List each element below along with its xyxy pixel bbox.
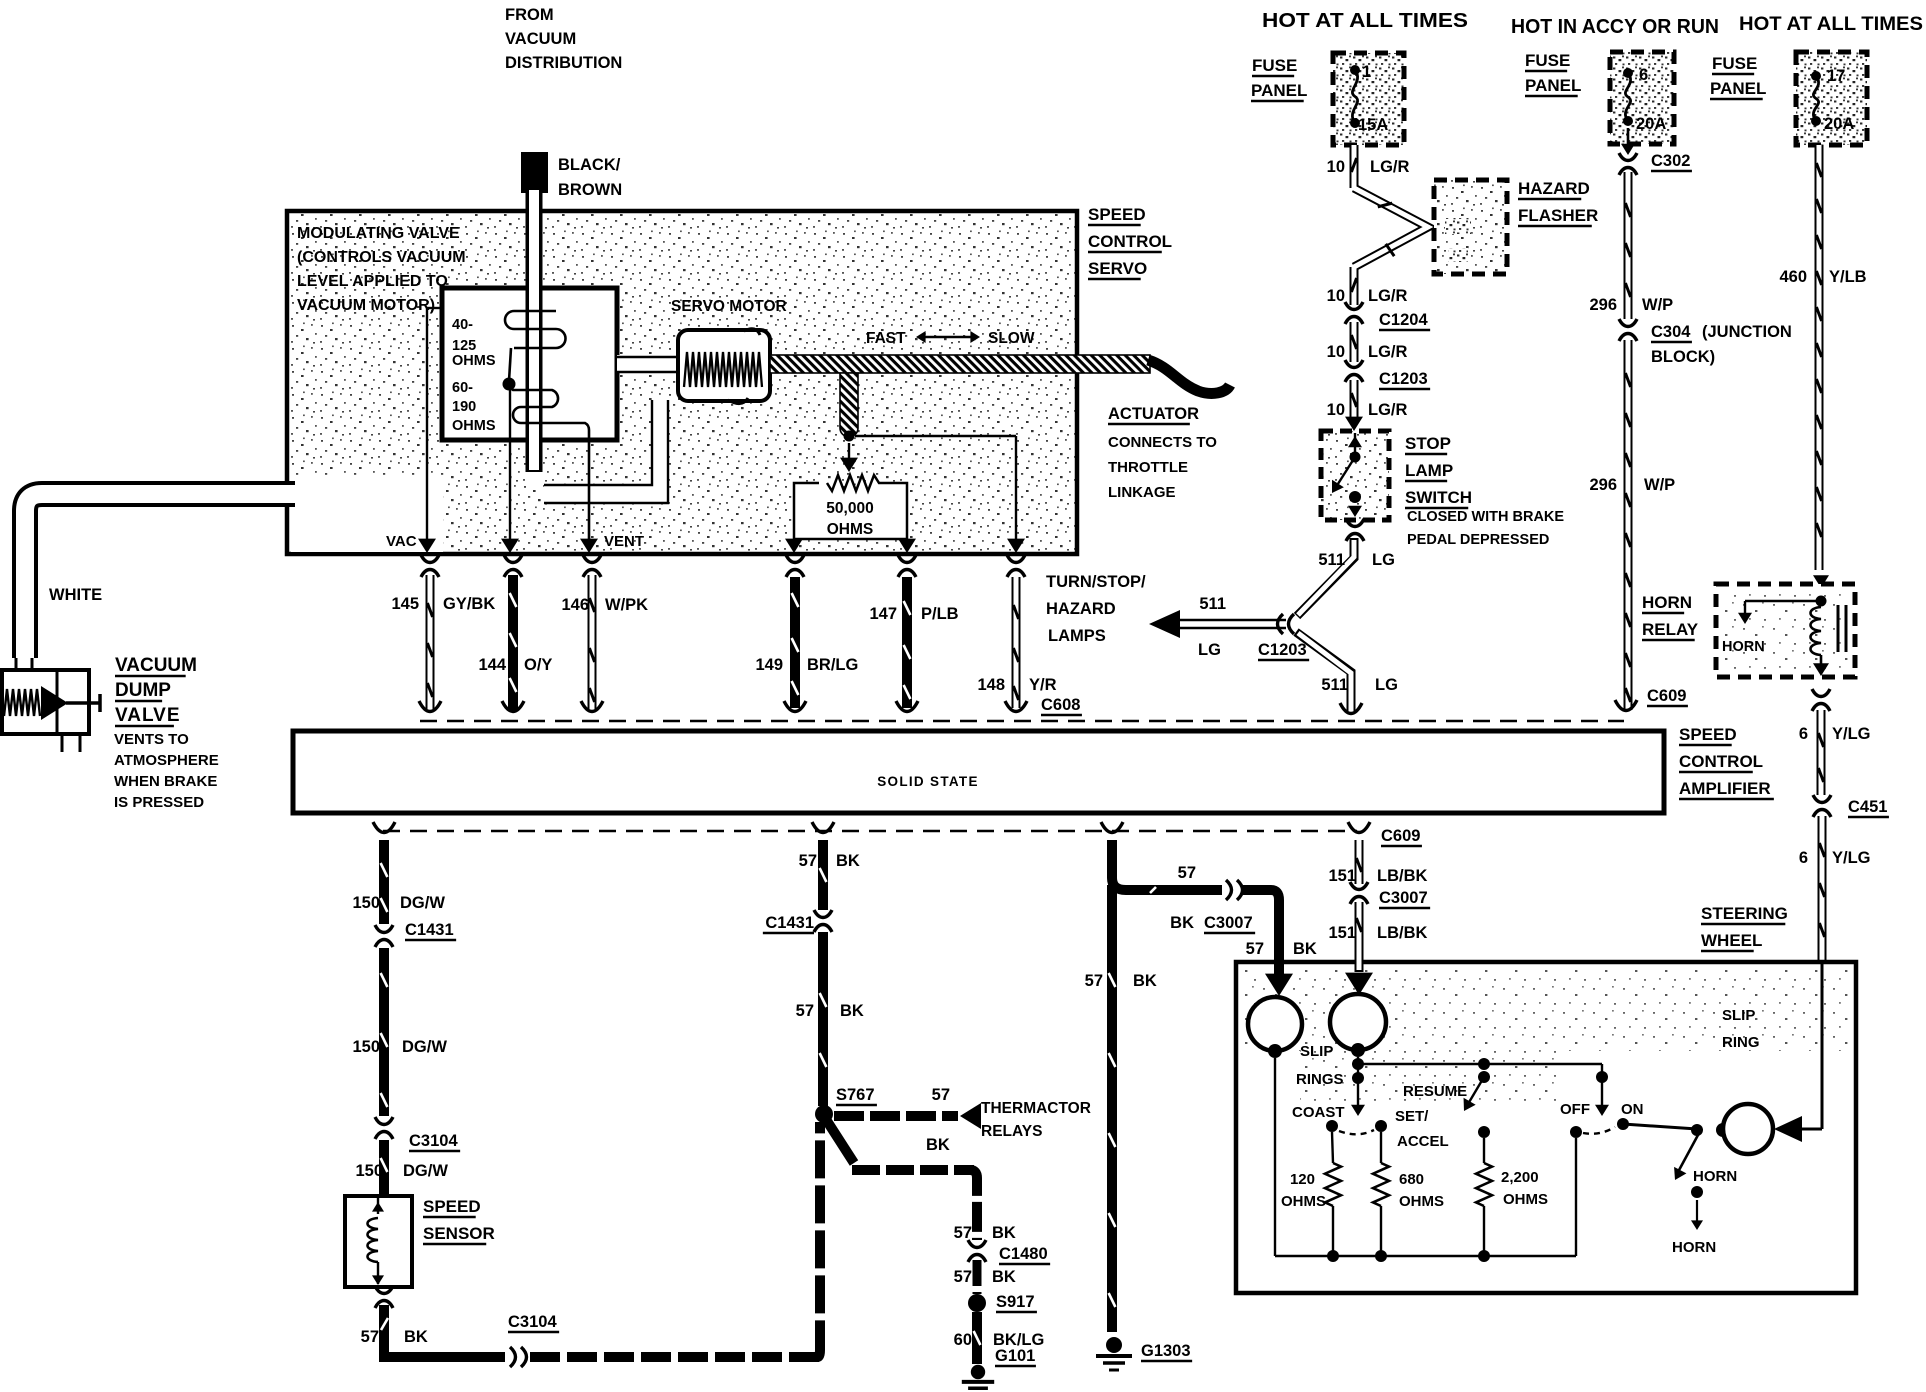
svg-text:Y/LG: Y/LG (1832, 849, 1871, 867)
svg-text:680: 680 (1399, 1171, 1424, 1188)
svg-text:511: 511 (1321, 676, 1348, 694)
svg-text:40-: 40- (452, 317, 473, 333)
svg-text:IS PRESSED: IS PRESSED (114, 794, 204, 811)
svg-text:57: 57 (799, 852, 817, 870)
svg-text:LG/R: LG/R (1368, 401, 1407, 419)
svg-text:57: 57 (954, 1224, 972, 1242)
svg-text:60: 60 (954, 1331, 972, 1349)
svg-text:LB/BK: LB/BK (1377, 867, 1427, 885)
svg-text:SPEED: SPEED (1679, 725, 1737, 744)
svg-text:RING: RING (1722, 1034, 1760, 1051)
svg-text:C3104: C3104 (508, 1313, 557, 1331)
svg-text:296: 296 (1589, 476, 1617, 494)
svg-text:120: 120 (1290, 1171, 1315, 1188)
svg-text:6: 6 (1639, 66, 1648, 84)
svg-text:10: 10 (1327, 401, 1345, 419)
svg-text:ON: ON (1621, 1101, 1644, 1118)
svg-text:C608: C608 (1041, 696, 1080, 714)
svg-text:57: 57 (796, 1002, 814, 1020)
svg-text:BLACK/: BLACK/ (558, 156, 621, 174)
svg-text:CONTROL: CONTROL (1679, 752, 1763, 771)
svg-text:VACUUM MOTOR): VACUUM MOTOR) (297, 297, 435, 314)
svg-text:151: 151 (1328, 867, 1356, 885)
svg-text:C3007: C3007 (1379, 889, 1428, 907)
svg-text:PANEL: PANEL (1525, 76, 1581, 95)
svg-text:ACCEL: ACCEL (1397, 1133, 1449, 1150)
svg-text:C451: C451 (1848, 798, 1887, 816)
svg-text:C1203: C1203 (1258, 641, 1307, 659)
svg-text:LB/BK: LB/BK (1377, 924, 1427, 942)
svg-text:SERVO: SERVO (1088, 259, 1147, 278)
svg-text:WHEEL: WHEEL (1701, 931, 1762, 950)
svg-text:MODULATING VALVE: MODULATING VALVE (297, 225, 460, 242)
svg-text:TURN/STOP/: TURN/STOP/ (1046, 573, 1146, 591)
svg-text:10: 10 (1327, 158, 1345, 176)
svg-text:HOT IN ACCY OR RUN: HOT IN ACCY OR RUN (1511, 15, 1719, 38)
svg-text:146: 146 (561, 596, 589, 614)
svg-text:LG: LG (1372, 551, 1395, 569)
svg-text:OHMS: OHMS (1281, 1193, 1326, 1210)
svg-text:150: 150 (355, 1162, 383, 1180)
svg-text:LG: LG (1375, 676, 1398, 694)
svg-text:SOLID STATE: SOLID STATE (877, 774, 979, 789)
svg-text:HAZARD: HAZARD (1518, 179, 1590, 198)
svg-text:BK: BK (992, 1268, 1016, 1286)
svg-text:SPEED: SPEED (1088, 205, 1146, 224)
svg-text:SENSOR: SENSOR (423, 1224, 495, 1243)
svg-text:VACUUM: VACUUM (505, 30, 576, 48)
svg-text:SLOW: SLOW (988, 330, 1035, 347)
svg-text:ACTUATOR: ACTUATOR (1108, 405, 1199, 423)
svg-text:151: 151 (1328, 924, 1356, 942)
svg-text:57: 57 (932, 1086, 950, 1104)
svg-text:DG/W: DG/W (402, 1038, 447, 1056)
svg-text:C1204: C1204 (1379, 311, 1428, 329)
svg-text:C1431: C1431 (405, 921, 454, 939)
svg-text:CLOSED WITH BRAKE: CLOSED WITH BRAKE (1407, 509, 1564, 525)
svg-text:20A: 20A (1636, 115, 1666, 133)
svg-text:10: 10 (1327, 287, 1345, 305)
svg-text:LINKAGE: LINKAGE (1108, 484, 1176, 501)
svg-text:SLIP: SLIP (1722, 1007, 1755, 1024)
svg-text:DISTRIBUTION: DISTRIBUTION (505, 54, 622, 72)
svg-text:COAST: COAST (1292, 1104, 1345, 1121)
svg-text:STOP: STOP (1405, 434, 1451, 453)
svg-text:RESUME: RESUME (1403, 1083, 1467, 1100)
svg-text:WHEN BRAKE: WHEN BRAKE (114, 773, 217, 790)
svg-text:LG/R: LG/R (1370, 158, 1409, 176)
svg-text:HORN: HORN (1642, 593, 1692, 612)
svg-text:G101: G101 (995, 1347, 1035, 1365)
svg-text:DG/W: DG/W (400, 894, 445, 912)
svg-text:OHMS: OHMS (452, 418, 496, 434)
svg-text:Y/R: Y/R (1029, 676, 1057, 694)
svg-text:AMPLIFIER: AMPLIFIER (1679, 779, 1771, 798)
svg-text:147: 147 (869, 605, 897, 623)
svg-text:LG/R: LG/R (1368, 343, 1407, 361)
svg-text:THROTTLE: THROTTLE (1108, 459, 1188, 476)
svg-text:150: 150 (352, 1038, 380, 1056)
svg-text:W/P: W/P (1644, 476, 1675, 494)
svg-text:511: 511 (1318, 551, 1345, 569)
svg-text:FLASHER: FLASHER (1518, 206, 1598, 225)
svg-text:15A: 15A (1358, 116, 1388, 134)
svg-text:HAZARD: HAZARD (1046, 600, 1116, 618)
svg-text:150: 150 (352, 894, 380, 912)
svg-text:57: 57 (361, 1328, 379, 1346)
svg-text:2,200: 2,200 (1501, 1169, 1539, 1186)
svg-text:PEDAL DEPRESSED: PEDAL DEPRESSED (1407, 532, 1549, 548)
svg-text:6: 6 (1799, 725, 1808, 743)
svg-text:W/PK: W/PK (605, 596, 648, 614)
svg-text:HORN: HORN (1672, 1239, 1716, 1256)
svg-text:VACUUM: VACUUM (115, 655, 197, 676)
svg-text:6: 6 (1799, 849, 1808, 867)
svg-text:C3104: C3104 (409, 1132, 458, 1150)
svg-text:FROM: FROM (505, 6, 554, 24)
svg-text:LG: LG (1198, 641, 1221, 659)
svg-text:OHMS: OHMS (827, 521, 874, 538)
svg-text:OHMS: OHMS (1399, 1193, 1444, 1210)
svg-text:1: 1 (1362, 63, 1371, 81)
svg-text:BR/LG: BR/LG (807, 656, 858, 674)
svg-text:LG/R: LG/R (1368, 287, 1407, 305)
svg-text:(CONTROLS VACUUM: (CONTROLS VACUUM (297, 249, 466, 266)
svg-text:HOT AT ALL TIMES: HOT AT ALL TIMES (1262, 9, 1468, 32)
svg-text:LAMPS: LAMPS (1048, 627, 1106, 645)
svg-text:148: 148 (977, 676, 1005, 694)
svg-text:145: 145 (391, 595, 419, 613)
svg-text:P/LB: P/LB (921, 605, 959, 623)
svg-text:STEERING: STEERING (1701, 904, 1788, 923)
svg-text:Y/LB: Y/LB (1829, 268, 1867, 286)
svg-text:HOT AT ALL TIMES: HOT AT ALL TIMES (1739, 13, 1923, 35)
svg-text:RELAYS: RELAYS (981, 1123, 1042, 1140)
svg-text:511: 511 (1199, 595, 1226, 613)
svg-text:PANEL: PANEL (1710, 79, 1766, 98)
svg-text:O/Y: O/Y (524, 656, 552, 674)
svg-text:SET/: SET/ (1395, 1108, 1429, 1125)
svg-text:BK: BK (836, 852, 860, 870)
svg-text:PANEL: PANEL (1251, 81, 1307, 100)
svg-text:144: 144 (478, 656, 506, 674)
svg-text:BROWN: BROWN (558, 181, 622, 199)
svg-text:LEVEL APPLIED TO: LEVEL APPLIED TO (297, 273, 448, 290)
svg-text:VAC: VAC (386, 533, 417, 550)
svg-text:CONNECTS TO: CONNECTS TO (1108, 434, 1217, 451)
svg-text:SLIP: SLIP (1300, 1043, 1333, 1060)
svg-text:57: 57 (1085, 972, 1103, 990)
svg-text:BLOCK): BLOCK) (1651, 348, 1715, 366)
svg-text:57: 57 (1178, 864, 1196, 882)
svg-text:BK: BK (1170, 914, 1194, 932)
svg-text:VENTS TO: VENTS TO (114, 731, 189, 748)
svg-text:BK: BK (926, 1136, 950, 1154)
svg-text:(JUNCTION: (JUNCTION (1702, 323, 1792, 341)
svg-text:BK: BK (1133, 972, 1157, 990)
svg-text:125: 125 (452, 338, 476, 354)
svg-text:BK: BK (1293, 940, 1317, 958)
svg-text:57: 57 (954, 1268, 972, 1286)
svg-text:RELAY: RELAY (1642, 620, 1699, 639)
svg-text:VENT: VENT (604, 533, 644, 550)
svg-text:LAMP: LAMP (1405, 461, 1453, 480)
svg-text:DG/W: DG/W (403, 1162, 448, 1180)
svg-text:WHITE: WHITE (49, 586, 102, 604)
svg-text:OFF: OFF (1560, 1101, 1590, 1118)
svg-text:THERMACTOR: THERMACTOR (981, 1100, 1091, 1117)
svg-text:C609: C609 (1647, 687, 1686, 705)
svg-text:17: 17 (1827, 67, 1845, 85)
svg-text:FUSE: FUSE (1712, 54, 1757, 73)
svg-text:G1303: G1303 (1141, 1342, 1191, 1360)
svg-text:S917: S917 (996, 1293, 1035, 1311)
svg-text:BK: BK (840, 1002, 864, 1020)
svg-text:20A: 20A (1824, 115, 1854, 133)
svg-text:460: 460 (1779, 268, 1807, 286)
svg-text:C304: C304 (1651, 323, 1691, 341)
svg-text:C302: C302 (1651, 152, 1690, 170)
svg-text:FUSE: FUSE (1252, 56, 1297, 75)
svg-text:W/P: W/P (1642, 296, 1673, 314)
svg-text:CONTROL: CONTROL (1088, 232, 1172, 251)
svg-text:C3007: C3007 (1204, 914, 1253, 932)
svg-text:C1203: C1203 (1379, 370, 1428, 388)
svg-text:C609: C609 (1381, 827, 1420, 845)
svg-text:OHMS: OHMS (1503, 1191, 1548, 1208)
svg-text:50,000: 50,000 (826, 500, 873, 517)
svg-text:BK: BK (404, 1328, 428, 1346)
svg-text:HORN: HORN (1693, 1168, 1737, 1185)
svg-text:OHMS: OHMS (452, 353, 496, 369)
svg-text:HORN: HORN (1722, 639, 1765, 655)
svg-text:SERVO MOTOR: SERVO MOTOR (671, 298, 787, 315)
svg-text:ATMOSPHERE: ATMOSPHERE (114, 752, 219, 769)
svg-text:149: 149 (755, 656, 783, 674)
svg-text:C1431: C1431 (765, 914, 814, 932)
svg-text:RINGS: RINGS (1296, 1071, 1344, 1088)
svg-text:Y/LG: Y/LG (1832, 725, 1871, 743)
svg-text:BK: BK (992, 1224, 1016, 1242)
svg-text:VALVE: VALVE (115, 705, 181, 726)
svg-text:296: 296 (1589, 296, 1617, 314)
svg-text:SWITCH: SWITCH (1405, 488, 1472, 507)
svg-text:10: 10 (1327, 343, 1345, 361)
svg-text:S767: S767 (836, 1086, 875, 1104)
svg-text:DUMP: DUMP (115, 680, 171, 701)
svg-text:FAST: FAST (866, 330, 906, 347)
svg-text:C1480: C1480 (999, 1245, 1048, 1263)
svg-text:GY/BK: GY/BK (443, 595, 495, 613)
svg-text:60-: 60- (452, 380, 473, 396)
svg-text:SPEED: SPEED (423, 1197, 481, 1216)
svg-text:FUSE: FUSE (1525, 51, 1570, 70)
svg-text:190: 190 (452, 399, 476, 415)
svg-text:57: 57 (1246, 940, 1264, 958)
